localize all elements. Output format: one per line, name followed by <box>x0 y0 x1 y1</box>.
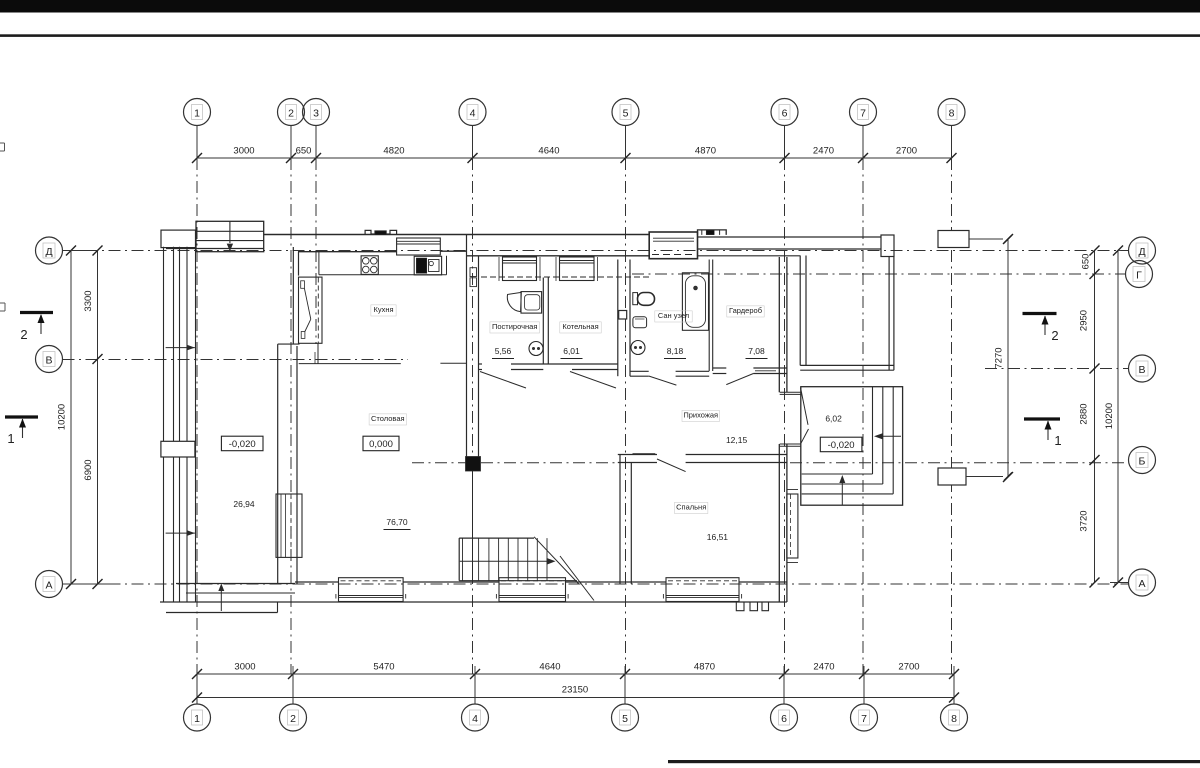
label Kotelnaya <box>560 322 601 333</box>
grid axis line 5 (vertical dash-dot) <box>624 126 627 704</box>
porch step 1 <box>802 387 873 474</box>
svg-text:8: 8 <box>951 713 957 725</box>
svg-text:2700: 2700 <box>896 146 917 157</box>
svg-text:26,94: 26,94 <box>233 499 255 509</box>
right segment dim line <box>1090 246 1100 588</box>
svg-text:6,02: 6,02 <box>825 414 842 424</box>
svg-text:1: 1 <box>194 107 200 119</box>
wall panel box <box>619 311 627 320</box>
axis bubble 8 top <box>938 99 965 126</box>
svg-text:2470: 2470 <box>813 662 834 673</box>
svg-text:1: 1 <box>7 431 14 446</box>
svg-text:650: 650 <box>1081 254 1092 270</box>
svg-text:1: 1 <box>1054 433 1061 448</box>
label San uzel <box>655 311 692 322</box>
svg-text:8,18: 8,18 <box>667 346 684 356</box>
dining west wall window <box>276 494 302 557</box>
label area 76.70 <box>384 517 411 530</box>
svg-text:6900: 6900 <box>83 459 94 480</box>
svg-text:Кухня: Кухня <box>373 305 393 314</box>
bathtub <box>682 273 708 331</box>
svg-text:10200: 10200 <box>57 404 68 430</box>
column marker top right <box>938 231 1012 248</box>
bedroom west wall <box>620 455 631 585</box>
top wall west cap block <box>161 230 196 248</box>
axis bubble 7 top <box>850 99 877 126</box>
laundry-boiler wall <box>543 278 548 365</box>
axis bubble 1 bottom <box>184 704 211 731</box>
svg-text:А: А <box>45 579 52 591</box>
header underline rule <box>0 34 1200 37</box>
boiler door leaf <box>570 372 616 389</box>
svg-text:А: А <box>1138 578 1145 590</box>
svg-text:7: 7 <box>861 713 867 725</box>
axis bubble 4 bottom <box>462 704 489 731</box>
dining west wall upper <box>293 247 298 344</box>
electrical panel boxes <box>470 268 477 287</box>
section marker 1 right <box>1024 419 1060 440</box>
laundry bottom wall <box>479 364 618 370</box>
bedroom east window <box>787 490 798 563</box>
bath bottom wall <box>630 371 709 376</box>
bedroom south window <box>663 578 741 602</box>
dim line 7270 <box>1003 234 1013 482</box>
axis bubble В right <box>1129 355 1156 382</box>
top black header bar <box>0 0 1200 13</box>
axis bubble Д left <box>36 237 63 264</box>
bottom overall dimension line <box>192 693 959 703</box>
label Stolovaya <box>369 414 406 425</box>
south wall inner edge dining <box>295 581 339 583</box>
svg-text:2: 2 <box>1051 328 1058 343</box>
svg-text:6: 6 <box>781 713 787 725</box>
top wall inner edge kitchen <box>298 250 467 253</box>
east exterior wall lower <box>779 444 787 602</box>
svg-text:2: 2 <box>288 107 294 119</box>
label Kuhnya <box>371 305 396 316</box>
svg-text:5: 5 <box>622 713 628 725</box>
axis bubble 2 bottom <box>280 704 307 731</box>
svg-text:Прихожая: Прихожая <box>683 411 718 420</box>
elevation -0.020 porch <box>820 437 862 452</box>
svg-text:Б: Б <box>1139 455 1146 467</box>
label area 8.18 <box>664 346 686 359</box>
grid axis line 7 (vertical dash-dot) <box>863 126 864 704</box>
top wall right section lines <box>698 249 882 256</box>
toilet <box>633 293 655 306</box>
bedroom north wall <box>618 454 787 463</box>
grid axis line 8 (vertical dash-dot) <box>952 126 955 704</box>
svg-text:Г: Г <box>1136 269 1142 281</box>
svg-text:2: 2 <box>290 713 296 725</box>
label Garderob <box>727 306 764 317</box>
left segment dim line <box>63 246 113 590</box>
grid axis line 6 (vertical dash-dot) <box>783 126 786 704</box>
grid axis line 1 (vertical dash-dot) <box>196 126 198 704</box>
bathroom flue crenellation <box>698 230 727 235</box>
svg-text:В: В <box>1138 364 1145 376</box>
porch up arrow <box>839 475 845 505</box>
axis bubble 6 top <box>771 99 798 126</box>
axis bubble В left <box>36 346 63 373</box>
svg-text:16,51: 16,51 <box>707 532 729 542</box>
axis bubble 7 bottom <box>851 704 878 731</box>
kitchen east wall <box>467 235 479 457</box>
svg-text:Гардероб: Гардероб <box>729 306 762 315</box>
south wall crenellation <box>736 602 768 611</box>
bath-gard wall <box>709 260 713 372</box>
terrace west screen <box>800 256 806 366</box>
svg-text:2950: 2950 <box>1079 310 1090 331</box>
svg-text:0,000: 0,000 <box>369 439 393 450</box>
svg-text:-0,020: -0,020 <box>229 439 256 450</box>
kitchen south boundary <box>299 344 467 364</box>
axis bubble А right <box>1129 569 1156 596</box>
elevation -0.020 garage <box>221 436 263 451</box>
svg-text:Постирочная: Постирочная <box>492 322 537 331</box>
svg-text:3: 3 <box>313 107 319 119</box>
left overall dim line 10200 <box>66 246 76 590</box>
svg-text:3000: 3000 <box>234 662 255 673</box>
svg-text:10200: 10200 <box>1104 403 1115 429</box>
svg-text:5470: 5470 <box>373 662 394 673</box>
bath boiler unit <box>631 341 645 355</box>
svg-text:3000: 3000 <box>233 146 254 157</box>
washing machine <box>521 292 542 314</box>
svg-text:7: 7 <box>860 107 866 119</box>
south wall between windows 2 <box>566 581 667 583</box>
top wall inner edge left section <box>166 248 264 250</box>
south wall outer edge <box>160 601 787 603</box>
margin mark upper <box>0 143 5 151</box>
porch door leaf upper <box>801 388 809 425</box>
top dimension line <box>192 150 957 166</box>
svg-text:2700: 2700 <box>898 662 919 673</box>
axis bubble 2 top <box>278 99 305 126</box>
south wall garage inner lines <box>166 584 295 613</box>
porch door jamb top <box>780 392 801 394</box>
svg-text:4870: 4870 <box>695 146 716 157</box>
svg-text:12,15: 12,15 <box>726 435 748 445</box>
top wall inner dashed edge <box>481 276 649 278</box>
section marker 1 left <box>5 417 38 438</box>
axis bubble 4 top <box>459 99 486 126</box>
row axis B left (dash-dot) <box>412 462 618 464</box>
label Spalnya <box>675 502 708 513</box>
bottom dimension line (segments) <box>192 666 959 682</box>
svg-text:4640: 4640 <box>538 146 559 157</box>
laundry boiler unit <box>529 342 543 356</box>
label area 5.56 <box>492 346 514 359</box>
south wall between windows 1 <box>403 581 499 583</box>
south wall east segment <box>739 581 787 583</box>
dining west wall step <box>278 343 300 345</box>
axis bubble 3 top <box>303 99 330 126</box>
dining west wall lower <box>278 344 297 584</box>
right overall dim line 10200 <box>1110 246 1129 588</box>
axis bubble 8 bottom <box>941 704 968 731</box>
axis bubble 6 bottom <box>771 704 798 731</box>
laundry corner sink <box>507 292 521 311</box>
svg-text:2470: 2470 <box>813 146 834 157</box>
axis bubble 5 bottom <box>612 704 639 731</box>
row axis V right (dash-dot) <box>985 368 1129 370</box>
axis bubble А left <box>36 571 63 598</box>
kitchen flue bump <box>365 230 397 234</box>
svg-text:3720: 3720 <box>1079 510 1090 531</box>
kitchen window <box>397 238 441 255</box>
axis bubble 1 top <box>184 99 211 126</box>
bath sink <box>633 317 647 328</box>
boiler window <box>556 257 598 281</box>
axis bubble Г right <box>1126 261 1153 288</box>
svg-text:Сан узел: Сан узел <box>658 311 689 320</box>
margin mark lower <box>0 303 5 311</box>
porch entry arrow <box>874 433 901 439</box>
porch door leaf lower <box>800 429 808 444</box>
section marker 2 left <box>20 313 53 335</box>
svg-text:Д: Д <box>1138 246 1145 258</box>
west wall tie upper <box>166 345 195 351</box>
svg-text:5,56: 5,56 <box>495 346 512 356</box>
west wall tie block <box>161 441 195 457</box>
row axis G (dash-dot) <box>632 273 1126 275</box>
west exterior wall leaves <box>164 247 196 602</box>
svg-text:2: 2 <box>20 327 27 342</box>
row axis B right (dash-dot) <box>790 462 1129 464</box>
top wall NE corner block <box>881 235 894 257</box>
dining south window <box>336 578 406 602</box>
bedroom door leaf <box>657 459 686 472</box>
grid axis line 2 (vertical dash-dot) <box>291 126 293 704</box>
porch step 3 <box>802 387 894 494</box>
svg-text:2880: 2880 <box>1079 403 1090 424</box>
svg-text:650: 650 <box>296 146 312 157</box>
svg-text:1: 1 <box>194 713 200 725</box>
svg-text:Д: Д <box>45 246 52 258</box>
stair south window <box>496 578 568 602</box>
svg-text:В: В <box>45 354 52 366</box>
porch step 2 <box>802 387 883 484</box>
elevation 0.000 dining <box>363 436 399 451</box>
top exterior wall outer edge <box>264 234 649 236</box>
svg-text:4640: 4640 <box>539 662 560 673</box>
svg-text:3300: 3300 <box>83 290 94 311</box>
gardrobe bottom wall <box>713 368 787 374</box>
label Prihozhaya <box>682 410 719 421</box>
top wall chimney block <box>196 221 264 251</box>
svg-text:8: 8 <box>949 107 955 119</box>
svg-text:7270: 7270 <box>994 347 1005 368</box>
west wall tie lower <box>166 530 195 536</box>
svg-text:4870: 4870 <box>694 662 715 673</box>
staircase <box>459 471 594 601</box>
column marker mid right <box>938 468 1012 485</box>
porch door jamb bottom <box>780 444 801 446</box>
bath door leaf <box>649 376 677 385</box>
svg-text:Котельная: Котельная <box>562 322 598 331</box>
south wall garage door arrow <box>218 584 224 612</box>
boiler-bath wall axis5 <box>618 260 630 377</box>
row axis V left (dash-dot) <box>63 359 409 361</box>
bottom right rule <box>668 760 1200 763</box>
svg-text:76,70: 76,70 <box>386 517 408 527</box>
label area 6.01 <box>561 346 583 359</box>
svg-text:4820: 4820 <box>383 146 404 157</box>
kitchen sink <box>414 256 441 275</box>
grid axis line 3 (vertical dash-dot) <box>315 126 317 344</box>
svg-text:4: 4 <box>470 107 476 119</box>
fireplace flue block <box>299 277 323 343</box>
terrace east wall <box>889 257 894 371</box>
terrace south wall <box>800 365 894 370</box>
svg-text:6,01: 6,01 <box>563 346 580 356</box>
laundry window <box>499 257 540 281</box>
kitchen zone dashed boundary <box>317 278 319 344</box>
axis bubble 5 top <box>612 99 639 126</box>
svg-text:4: 4 <box>472 713 478 725</box>
kitchen stove <box>361 256 378 275</box>
east exterior wall upper <box>779 257 787 392</box>
top wall inner edge laundry section <box>467 255 650 257</box>
axis bubble Д right <box>1129 237 1156 264</box>
label area 7.08 <box>746 346 768 359</box>
bathroom window bay <box>649 232 697 259</box>
grid axis line 4 (vertical dash-dot) <box>473 126 476 704</box>
kitchen counter <box>319 252 447 275</box>
axis bubble Б right <box>1129 447 1156 474</box>
svg-text:6: 6 <box>782 107 788 119</box>
laundry door leaf <box>480 372 526 389</box>
top exterior wall outer edge right <box>698 236 882 238</box>
svg-text:Столовая: Столовая <box>371 414 405 423</box>
svg-text:5: 5 <box>623 107 629 119</box>
svg-text:-0,020: -0,020 <box>828 440 855 451</box>
svg-text:7,08: 7,08 <box>748 346 765 356</box>
row axis A (dash-dot) <box>63 583 1129 585</box>
label Postirochnaya <box>490 322 540 333</box>
section marker 2 right <box>1023 314 1057 336</box>
svg-text:Спальня: Спальня <box>676 503 706 512</box>
porch outline <box>801 387 903 506</box>
column axis4-B black <box>466 457 481 472</box>
row axis D (dash-dot) <box>63 250 1129 252</box>
gardrobe door leaf <box>726 374 753 385</box>
svg-text:23150: 23150 <box>562 685 588 696</box>
